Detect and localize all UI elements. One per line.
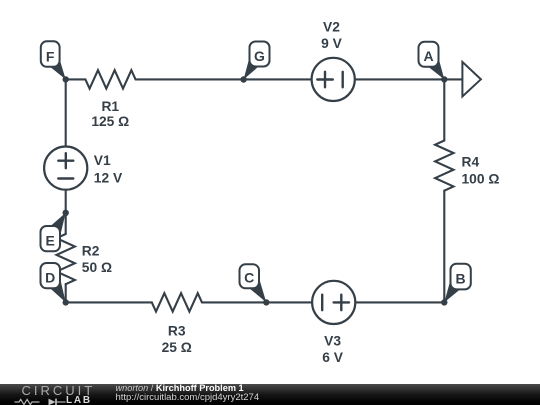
label V3 value (322, 333, 344, 365)
svg-text:R3: R3 (168, 324, 186, 339)
svg-text:A: A (423, 48, 433, 64)
wire left E-D (65, 284, 67, 302)
CircuitLab logo (22, 385, 96, 397)
svg-text:C: C (244, 269, 254, 285)
svg-text:R4: R4 (462, 155, 480, 170)
voltage source V1 (44, 147, 87, 190)
node C (240, 264, 270, 305)
voltage source V3 (312, 281, 355, 324)
svg-text:9 V: 9 V (321, 36, 343, 51)
svg-text:V3: V3 (324, 333, 341, 348)
node G (240, 42, 269, 83)
svg-text:E: E (46, 233, 55, 249)
footer url text (116, 392, 260, 403)
label V1 value (94, 153, 123, 186)
resistor R4 (435, 141, 453, 191)
svg-text:R1: R1 (101, 99, 119, 114)
voltage source V2 (312, 58, 355, 101)
svg-text:B: B (456, 270, 466, 286)
svg-text:6 V: 6 V (322, 350, 344, 365)
wire bottom D-C-B (66, 301, 445, 303)
svg-text:25 Ω: 25 Ω (162, 340, 192, 355)
wire right A-B (443, 79, 445, 302)
label R3 value (162, 324, 192, 355)
svg-text:V1: V1 (94, 153, 111, 168)
svg-text:12 V: 12 V (94, 171, 123, 186)
resistor R2 (56, 234, 74, 284)
svg-text:R2: R2 (82, 243, 100, 258)
svg-text:G: G (254, 48, 265, 64)
svg-text:V2: V2 (323, 20, 340, 35)
wire left F-E (65, 79, 67, 234)
node A (419, 42, 448, 83)
resistor R3 (152, 293, 202, 311)
svg-text:125 Ω: 125 Ω (91, 114, 129, 129)
svg-text:100 Ω: 100 Ω (462, 171, 500, 186)
label V2 value (321, 20, 343, 52)
node D (41, 263, 69, 306)
label R1 value (91, 99, 129, 129)
wire top F-G-A (66, 78, 463, 80)
logo resistor-diode symbol (14, 397, 66, 405)
footer title text (116, 383, 244, 393)
svg-text:F: F (46, 48, 55, 64)
svg-text:D: D (45, 270, 55, 286)
label R2 value (82, 243, 112, 275)
resistor R1 (85, 70, 135, 88)
node E (41, 210, 69, 252)
footer bar (0, 384, 540, 405)
output flag arrow at node A (462, 62, 481, 97)
node F (41, 41, 69, 82)
svg-text:50 Ω: 50 Ω (82, 260, 112, 275)
node B (441, 264, 471, 306)
label R4 value (462, 155, 500, 187)
